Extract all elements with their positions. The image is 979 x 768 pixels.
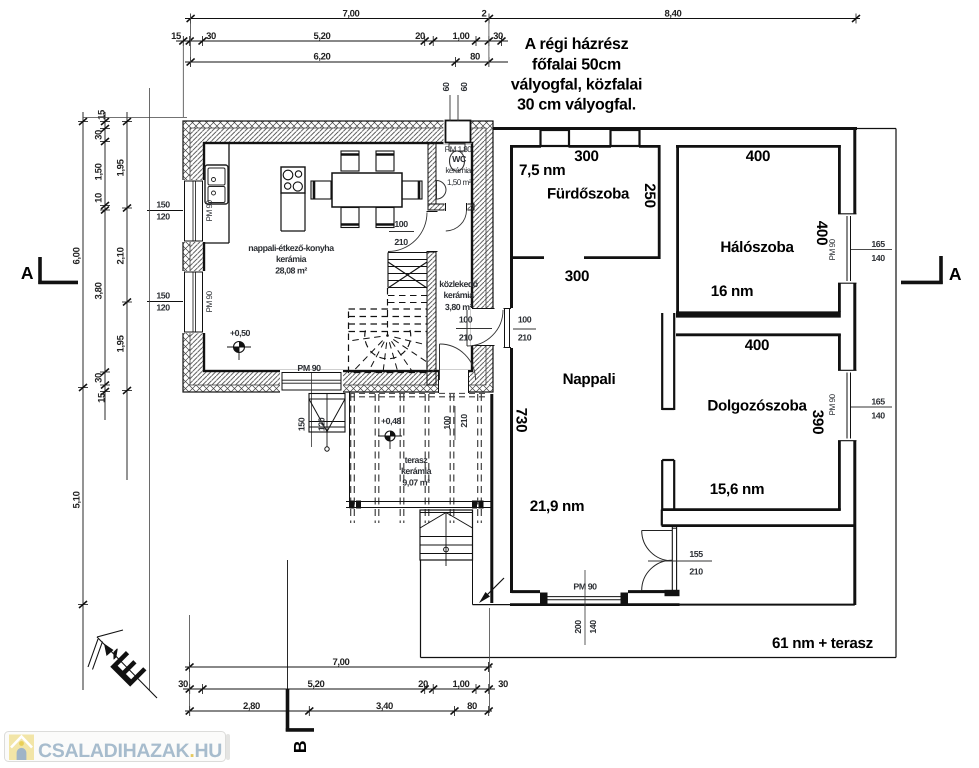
svg-text:nappali-étkező-konyha: nappali-étkező-konyha <box>248 243 334 253</box>
corridor-east door arc + leaf <box>467 310 503 346</box>
WC toilet <box>449 144 465 171</box>
kitchen counter below stove <box>281 193 305 231</box>
svg-text:165: 165 <box>871 239 885 249</box>
study (Dolgozószoba) room outline <box>662 334 841 510</box>
window bottom wall PM90 150/120 <box>280 370 343 393</box>
south window dim 200/140 rotated <box>573 620 598 634</box>
svg-text:300: 300 <box>565 268 589 285</box>
svg-text:16 nm: 16 nm <box>711 283 753 300</box>
window W2 left wall 150/120 <box>181 271 206 333</box>
svg-text:30: 30 <box>498 679 508 690</box>
top dim line 3 (6,20 / 80) <box>185 52 508 68</box>
corridor south door (to terasz) <box>438 344 476 393</box>
svg-text:61 nm + terasz: 61 nm + terasz <box>772 635 874 652</box>
old house outer wall cross-hatch band <box>183 121 493 392</box>
study south outer wall line <box>662 510 855 526</box>
svg-text:30: 30 <box>493 31 503 42</box>
stove with 4 burners <box>281 167 305 193</box>
terasz joists (dashed) <box>349 393 486 523</box>
svg-text:WC: WC <box>452 154 467 164</box>
svg-text:140: 140 <box>588 620 598 634</box>
section marker A right <box>901 256 962 284</box>
svg-text:200: 200 <box>573 620 583 634</box>
svg-text:140: 140 <box>871 253 885 263</box>
svg-text:30: 30 <box>94 373 105 383</box>
left horizontal extension <box>83 117 187 119</box>
svg-text:1,50 m²: 1,50 m² <box>447 178 472 187</box>
svg-text:PM 90: PM 90 <box>828 239 837 261</box>
svg-text:30 cm vályogfal.: 30 cm vályogfal. <box>517 97 636 114</box>
svg-text:15: 15 <box>97 109 108 120</box>
new house right outer wall line <box>853 127 856 605</box>
svg-text:kerámia: kerámia <box>443 290 474 300</box>
svg-text:100: 100 <box>442 416 452 430</box>
svg-text:7,00: 7,00 <box>343 9 360 20</box>
svg-text:A: A <box>949 264 962 284</box>
left dim chain 1 (6,00 / 5,10) <box>72 112 88 690</box>
kitchen sink unit <box>205 165 228 204</box>
svg-text:+0,48: +0,48 <box>381 416 402 426</box>
bottom extension lines <box>190 608 490 713</box>
svg-text:kerámia: kerámia <box>445 166 471 175</box>
porch dim 150/120 rotated <box>296 417 326 431</box>
svg-text:20: 20 <box>418 679 428 690</box>
chimney block 2 above bathroom <box>611 130 640 146</box>
new house west wall outer line (below old house) <box>490 394 493 603</box>
svg-text:140: 140 <box>871 411 885 421</box>
section line B <box>286 560 314 753</box>
svg-text:10: 10 <box>94 193 105 203</box>
level mark +0,50 <box>227 328 251 360</box>
svg-text:80: 80 <box>470 52 480 63</box>
svg-text:PM 1,80: PM 1,80 <box>445 145 473 154</box>
svg-text:főfalai 50cm: főfalai 50cm <box>532 57 621 74</box>
SE double door 155/210 <box>642 526 680 596</box>
svg-text:60: 60 <box>459 82 469 91</box>
svg-text:100: 100 <box>394 219 408 229</box>
garden stairs right edge line <box>472 510 474 605</box>
svg-text:Nappali: Nappali <box>563 371 616 388</box>
SE door dim 155/210 <box>648 549 712 577</box>
svg-text:terasz: terasz <box>405 455 429 465</box>
left dim chain 2 (15/30/1,50/10/3,80/30/15) <box>94 109 110 420</box>
svg-text:3,80 m²: 3,80 m² <box>445 302 473 312</box>
nappali south wall inner line with window <box>512 590 680 593</box>
section marker A left <box>21 257 78 284</box>
svg-text:400: 400 <box>746 148 770 165</box>
svg-text:6,20: 6,20 <box>314 52 331 63</box>
kitchen door dim 100/210 <box>389 219 414 247</box>
left extension line <box>149 88 151 690</box>
svg-text:250: 250 <box>641 183 658 207</box>
terasz south edge with posts <box>346 501 492 509</box>
window W2 dim 150/120 <box>147 291 183 313</box>
bedroom (Hálószoba) room outline <box>676 145 841 315</box>
svg-text:PM 90: PM 90 <box>828 394 837 416</box>
old house wall outlines <box>183 121 493 392</box>
east window 1 (bedroom) 165/140 <box>837 214 858 284</box>
east window 2 (study) 165/140 <box>837 370 858 441</box>
svg-text:60: 60 <box>441 82 451 91</box>
terasz label <box>401 455 432 488</box>
chair bottom-right <box>376 208 394 228</box>
svg-text:A régi házrész: A régi házrész <box>525 36 629 53</box>
svg-text:150: 150 <box>296 417 306 431</box>
east window 2 dim 165/140 <box>851 397 892 421</box>
chair left <box>311 181 331 199</box>
window W1 dim 150/120 <box>147 200 183 222</box>
svg-text:155: 155 <box>689 549 703 559</box>
svg-text:300: 300 <box>574 148 598 165</box>
svg-text:1,00: 1,00 <box>453 679 470 690</box>
svg-text:730: 730 <box>512 408 529 432</box>
bathroom (Fürdőszoba) room outline <box>510 145 661 259</box>
svg-text:30: 30 <box>206 31 216 42</box>
WC hand basin <box>437 181 447 200</box>
svg-text:vályogfal, közfalai: vályogfal, közfalai <box>511 77 642 94</box>
left dim chain 3 (1,95/2,10/1,95) <box>116 112 132 480</box>
svg-text:20: 20 <box>415 31 425 42</box>
svg-text:210: 210 <box>394 237 408 247</box>
boundary right edge <box>895 129 897 658</box>
svg-text:B: B <box>290 741 310 753</box>
chair top-left <box>341 151 359 171</box>
chimney block 1 above bathroom <box>541 130 570 146</box>
bottom dim line 2 (30/5,20/20/1,00/30) <box>178 679 508 694</box>
east window 1 dim 165/140 <box>851 239 892 263</box>
svg-text:3,40: 3,40 <box>376 701 393 712</box>
stairs dashed outline overlay <box>0 0 1 1</box>
svg-text:kerámia: kerámia <box>276 254 307 264</box>
wall between nappali and study (two segments with door) <box>662 313 674 510</box>
kitchen counter along left wall <box>204 143 229 243</box>
bottom dim line 1 (7,00) <box>185 657 493 672</box>
chair top-right <box>376 151 394 171</box>
svg-text:210: 210 <box>459 414 469 428</box>
svg-text:A: A <box>21 263 34 283</box>
svg-text:210: 210 <box>459 333 473 343</box>
top dim line 2 (15/30/5,20/20/1,00/30) <box>171 31 508 46</box>
SW corner arrow <box>479 578 504 603</box>
svg-text:1,00: 1,00 <box>453 31 470 42</box>
kitchen-corridor door arc <box>388 213 427 252</box>
svg-text:9,07 m²: 9,07 m² <box>402 478 430 488</box>
csaladihazak.hu watermark logo <box>5 732 231 763</box>
bottom window label PM 90 <box>297 363 321 447</box>
svg-text:közlekedő: közlekedő <box>439 279 479 289</box>
south window label PM 90 <box>573 570 597 645</box>
door opening old house east wall 100/210 <box>471 308 495 346</box>
WC door arc <box>446 210 467 231</box>
chimney 60x60 in top wall <box>444 119 472 144</box>
svg-text:210: 210 <box>689 567 703 577</box>
south window PM90 200/140 <box>540 593 628 605</box>
svg-text:120: 120 <box>316 417 326 431</box>
svg-text:150: 150 <box>156 291 170 301</box>
boundary left edge <box>420 560 422 658</box>
svg-text:400: 400 <box>745 337 769 354</box>
nappali door dim 100/210 (right) <box>513 315 536 343</box>
WC left wall <box>428 143 436 204</box>
stairs upper flight <box>388 253 427 289</box>
boundary bottom edge <box>421 657 897 659</box>
chair right <box>402 181 422 199</box>
svg-text:PM 90: PM 90 <box>205 200 214 222</box>
svg-text:1,95: 1,95 <box>116 334 127 352</box>
top extension lines <box>183 14 489 117</box>
west wall door frame (nappali entrance) <box>504 309 512 348</box>
garden stairs <box>420 510 473 566</box>
dining table <box>332 173 402 207</box>
svg-text:5,20: 5,20 <box>308 679 325 690</box>
svg-text:100: 100 <box>459 315 473 325</box>
svg-text:7,5 nm: 7,5 nm <box>519 162 565 179</box>
top dim line 1 (7,00 / 2 / 8,40) <box>185 9 860 24</box>
level mark +0,48 <box>378 416 402 449</box>
svg-text:120: 120 <box>156 212 170 222</box>
svg-text:Hálószoba: Hálószoba <box>720 239 794 256</box>
svg-text:30: 30 <box>94 130 105 140</box>
svg-text:6,00: 6,00 <box>72 247 83 264</box>
svg-text:2,10: 2,10 <box>116 247 127 264</box>
svg-text:2: 2 <box>482 9 487 20</box>
svg-text:CSALADIHAZAK.HU: CSALADIHAZAK.HU <box>38 740 222 762</box>
svg-text:5,20: 5,20 <box>314 31 331 42</box>
window W1 left wall 150/120 <box>181 180 206 242</box>
svg-text:8,40: 8,40 <box>665 9 682 20</box>
svg-text:1,95: 1,95 <box>116 158 127 176</box>
svg-text:PM 90: PM 90 <box>297 363 321 373</box>
north arrow <box>88 630 157 698</box>
new house west wall inner line <box>510 145 513 593</box>
svg-text:80: 80 <box>467 701 477 712</box>
note text block <box>511 36 642 114</box>
svg-text:1,50: 1,50 <box>94 163 105 180</box>
corridor room label <box>439 279 479 312</box>
svg-text:2,80: 2,80 <box>243 701 260 712</box>
boundary top thin segment <box>857 128 896 130</box>
svg-text:28,08 m²: 28,08 m² <box>275 266 307 276</box>
south outer line (walk edge + wall outer) <box>473 604 855 606</box>
svg-text:+0,50: +0,50 <box>230 328 251 338</box>
terasz door dim 100/210 rotated <box>442 406 469 440</box>
svg-text:15,6 nm: 15,6 nm <box>710 481 764 498</box>
room label nappali-etkezo-konyha <box>248 243 334 276</box>
WC bottom wall with door opening 75/210 <box>428 203 474 211</box>
old house inner wall diagonal-hatch band <box>190 128 486 385</box>
svg-text:7,00: 7,00 <box>333 657 350 668</box>
svg-text:3,80: 3,80 <box>94 282 105 299</box>
terasz left edge <box>349 392 351 508</box>
svg-text:5,10: 5,10 <box>72 491 83 508</box>
svg-text:150: 150 <box>156 200 170 210</box>
stairs winder (dashed) <box>349 288 428 373</box>
new house top outer wall line <box>493 127 857 130</box>
svg-text:Dolgozószoba: Dolgozószoba <box>707 398 807 415</box>
svg-text:100: 100 <box>518 315 532 325</box>
wall between kitchen and WC corridor, with door <box>426 211 438 385</box>
svg-text:165: 165 <box>871 397 885 407</box>
chair bottom-left <box>341 208 359 228</box>
WC labels <box>445 145 473 187</box>
svg-text:15: 15 <box>171 31 182 42</box>
svg-text:120: 120 <box>156 303 170 313</box>
svg-text:kerámia: kerámia <box>401 466 432 476</box>
svg-text:210: 210 <box>518 333 532 343</box>
svg-text:30: 30 <box>178 679 188 690</box>
svg-text:Fürdőszoba: Fürdőszoba <box>547 186 630 203</box>
porch steps below bottom window <box>309 394 345 452</box>
svg-text:PM 90: PM 90 <box>205 291 214 313</box>
svg-text:390: 390 <box>809 410 826 434</box>
chimney flue dim 60/60 <box>441 82 469 121</box>
bottom dim line 3 (2,80/3,40/80) <box>185 701 493 716</box>
svg-text:15: 15 <box>97 392 108 403</box>
svg-text:21,9 nm: 21,9 nm <box>530 498 584 515</box>
corridor door dim 100/210 (left) <box>456 315 492 343</box>
